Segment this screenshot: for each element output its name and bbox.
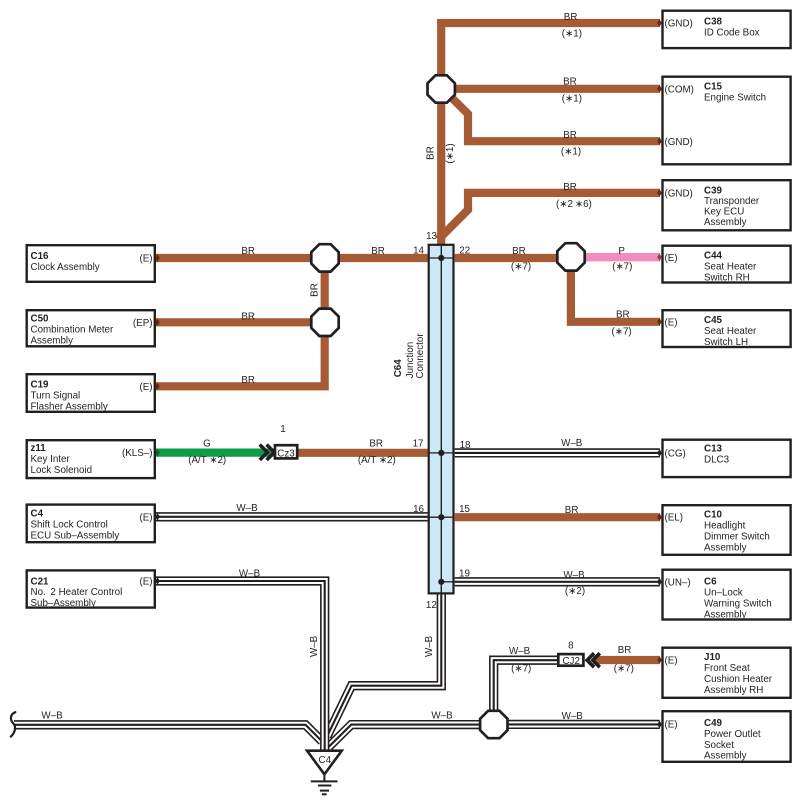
svg-text:z11: z11 (31, 443, 47, 454)
svg-text:(E): (E) (665, 656, 678, 667)
svg-text:(E): (E) (665, 720, 678, 731)
svg-text:Switch RH: Switch RH (704, 272, 750, 283)
component C39 Transponder Key ECU Assembly (663, 180, 791, 230)
svg-text:C15: C15 (704, 81, 723, 92)
svg-text:BR: BR (369, 439, 383, 450)
svg-text:Headlight: Headlight (704, 520, 746, 531)
svg-text:Assembly: Assembly (704, 751, 747, 762)
svg-text:C50: C50 (31, 314, 50, 325)
svg-text:(GND): (GND) (665, 137, 693, 148)
svg-text:W–B: W–B (562, 711, 584, 722)
svg-text:BR: BR (241, 246, 255, 257)
svg-text:G: G (203, 439, 211, 450)
svg-text:Socket: Socket (704, 740, 734, 751)
component z11 Key Inter Lock Solenoid (27, 440, 155, 478)
svg-text:BR: BR (616, 310, 630, 321)
svg-text:W–B: W–B (431, 711, 453, 722)
svg-text:Turn Signal: Turn Signal (31, 390, 81, 401)
svg-text:14: 14 (413, 246, 424, 257)
svg-text:C45: C45 (704, 315, 723, 326)
wire BR from C16 to octagon junction B (156, 254, 325, 262)
svg-text:Engine Switch: Engine Switch (704, 92, 766, 103)
svg-text:C49: C49 (704, 718, 723, 729)
svg-text:13: 13 (426, 231, 437, 242)
svg-text:(E): (E) (139, 512, 152, 523)
svg-text:(E): (E) (139, 382, 152, 393)
svg-text:W–B: W–B (41, 711, 63, 722)
svg-text:(∗7): (∗7) (612, 327, 632, 338)
svg-text:(E): (E) (139, 577, 152, 588)
svg-text:C4: C4 (319, 755, 332, 766)
svg-text:(UN–): (UN–) (665, 577, 691, 588)
svg-text:18: 18 (460, 440, 471, 451)
connector Cz3 (260, 445, 298, 460)
junction octagon E (bottom W-B splice) (480, 711, 507, 738)
component C6 Un-Lock Warning Switch Assembly (663, 570, 791, 621)
ground C4 (307, 751, 342, 795)
wire BR vertical between octagon junctions B and C (321, 258, 329, 323)
wire BR from octagon junction B to C64 pin 14 (325, 254, 428, 262)
svg-text:BR: BR (563, 182, 577, 193)
svg-text:BR: BR (563, 76, 577, 87)
svg-text:17: 17 (413, 438, 424, 449)
svg-text:Cz3: Cz3 (277, 448, 295, 459)
svg-text:(GND): (GND) (665, 19, 693, 30)
svg-text:W–B: W–B (239, 568, 261, 579)
svg-text:Power Outlet: Power Outlet (704, 729, 761, 740)
wire continuation break symbol (left bus) (11, 712, 16, 736)
component C13 DLC3 (663, 440, 791, 477)
svg-text:19: 19 (459, 569, 470, 580)
svg-text:C10: C10 (704, 509, 723, 520)
wire W-B from C4 to C64 pin 16 (155, 503, 428, 521)
wire BR from connector Cz3 to C64 pin 17 (298, 449, 428, 457)
svg-text:12: 12 (426, 600, 437, 611)
wire W-B from C64 pin 19 to C6 (455, 570, 662, 597)
svg-text:(A/T ∗2): (A/T ∗2) (358, 455, 396, 466)
svg-text:C64: C64 (393, 359, 404, 378)
svg-text:BR: BR (564, 12, 578, 23)
svg-text:J10: J10 (704, 652, 721, 663)
junction connector C64 (393, 245, 453, 594)
svg-text:(∗7): (∗7) (614, 664, 634, 675)
svg-text:BR: BR (241, 375, 255, 386)
svg-text:Un–Lock: Un–Lock (704, 587, 743, 598)
svg-text:BR: BR (563, 130, 577, 141)
svg-text:(KLS–): (KLS–) (122, 448, 153, 459)
svg-text:ECU Sub–Assembly: ECU Sub–Assembly (31, 531, 120, 542)
node C64 pin 17/18 (438, 450, 444, 456)
connector CJ2 (558, 653, 600, 667)
svg-text:BR: BR (241, 312, 255, 323)
component C4 Shift Lock Control ECU Sub-Assembly (27, 505, 155, 543)
svg-text:Connector: Connector (415, 333, 426, 379)
component C38 ID Code Box (663, 11, 791, 48)
svg-text:(E): (E) (665, 253, 678, 264)
component C50 Combination Meter Assembly (27, 310, 155, 347)
svg-text:No. 2 Heater Control: No. 2 Heater Control (31, 587, 123, 598)
svg-text:C44: C44 (704, 250, 723, 261)
wire BR branch from main vertical to C39 (GND) (439, 193, 660, 239)
wire W-B from ground junction to octagon junction (bottom) (329, 711, 481, 747)
svg-text:16: 16 (413, 504, 424, 515)
svg-text:Shift Lock Control: Shift Lock Control (31, 520, 108, 531)
svg-text:Clock Assembly: Clock Assembly (31, 262, 100, 273)
junction octagon C (C50 row splice) (311, 309, 338, 336)
svg-text:Front Seat: Front Seat (704, 663, 750, 674)
junction octagon A (top BR splice) (428, 75, 455, 102)
wire BR from top junction to C15 (COM) (455, 85, 660, 93)
svg-text:C38: C38 (704, 16, 723, 27)
svg-text:(GND): (GND) (665, 189, 693, 200)
svg-text:Transponder: Transponder (704, 196, 760, 207)
svg-text:22: 22 (459, 246, 470, 257)
svg-text:Assembly: Assembly (704, 217, 747, 228)
svg-text:BR: BR (310, 283, 321, 297)
svg-text:(EP): (EP) (133, 318, 153, 329)
component C15 Engine Switch (663, 77, 791, 165)
svg-text:(EL): (EL) (665, 513, 684, 524)
component C44 Seat Heater Switch RH (663, 246, 791, 284)
wire BR from top junction to C38 (441, 23, 660, 75)
component C49 Power Outlet Socket Assembly (663, 711, 791, 762)
svg-text:Seat Heater: Seat Heater (704, 261, 757, 272)
wire BR branch from top junction to C15 (GND) (449, 95, 660, 142)
svg-text:BR: BR (371, 246, 385, 257)
svg-text:Assembly: Assembly (31, 336, 74, 347)
svg-text:W–B: W–B (509, 646, 531, 657)
svg-text:1: 1 (280, 424, 285, 435)
svg-text:BR: BR (618, 645, 632, 656)
svg-text:Seat Heater: Seat Heater (704, 326, 757, 337)
wire G from z11 to connector Cz3 (156, 449, 274, 457)
svg-text:Sub–Assembly: Sub–Assembly (31, 598, 96, 609)
svg-text:(∗7): (∗7) (612, 262, 632, 273)
svg-text:Warning Switch: Warning Switch (704, 598, 772, 609)
wire BR from C50 to octagon junction C (156, 318, 325, 326)
svg-text:(∗1): (∗1) (562, 28, 582, 39)
svg-text:BR: BR (426, 146, 437, 160)
svg-text:Flasher Assembly: Flasher Assembly (31, 401, 108, 412)
component C21 No.2 Heater Control Sub-Assembly (27, 570, 155, 609)
svg-text:Cushion Heater: Cushion Heater (704, 674, 773, 685)
svg-text:Assembly RH: Assembly RH (704, 685, 763, 696)
component C45 Seat Heater Switch LH (663, 310, 791, 348)
wire W-B from C64 pin 18 to C13 (455, 438, 662, 457)
node C64 pin 14/22 (438, 255, 444, 261)
svg-text:(E): (E) (139, 254, 152, 265)
svg-text:(∗7): (∗7) (511, 262, 531, 273)
wire P from octagon junction D to C44 (584, 253, 660, 261)
svg-text:P: P (618, 246, 625, 257)
svg-text:(∗1): (∗1) (562, 94, 582, 105)
svg-text:W–B: W–B (424, 635, 435, 657)
svg-text:(A/T ∗2): (A/T ∗2) (188, 455, 226, 466)
junction octagon B (C16 row splice) (311, 244, 338, 271)
svg-text:W–B: W–B (561, 438, 583, 449)
wire W-B from C64 pin 12 down to ground junction (327, 594, 441, 737)
svg-text:W–B: W–B (563, 570, 585, 581)
svg-text:W–B: W–B (236, 503, 258, 514)
junction octagon D (seat heater splice) (557, 243, 584, 270)
svg-text:(∗2 ∗6): (∗2 ∗6) (556, 199, 592, 210)
svg-text:C21: C21 (31, 576, 50, 587)
svg-text:15: 15 (459, 504, 470, 515)
svg-text:Key ECU: Key ECU (704, 206, 744, 217)
wire W-B from bottom octagon junction to C49 (507, 711, 662, 728)
component C16 Clock Assembly (27, 245, 155, 282)
svg-text:C6: C6 (704, 576, 717, 587)
svg-text:(∗2): (∗2) (565, 586, 585, 597)
svg-text:(∗1): (∗1) (445, 143, 456, 163)
svg-text:Key Inter: Key Inter (31, 454, 71, 465)
svg-text:Assembly: Assembly (704, 542, 747, 553)
svg-text:Switch LH: Switch LH (704, 337, 748, 348)
svg-text:Assembly: Assembly (704, 609, 747, 620)
svg-text:Dimmer Switch: Dimmer Switch (704, 531, 770, 542)
svg-text:C4: C4 (31, 509, 44, 520)
wire BR from connector CJ2 to J10 (593, 656, 660, 664)
svg-text:(COM): (COM) (665, 84, 694, 95)
svg-text:DLC3: DLC3 (704, 454, 730, 465)
node C64 pin 16/15 (438, 514, 444, 520)
svg-text:C16: C16 (31, 251, 50, 262)
svg-text:8: 8 (568, 641, 574, 652)
svg-text:(E): (E) (665, 317, 678, 328)
svg-text:BR: BR (512, 246, 526, 257)
wire BR from C64 pin 15 to C10 (455, 513, 660, 521)
component J10 Front Seat Cushion Heater Assembly RH (663, 648, 791, 698)
wire W-B left bus with continuation to ground junction (14, 711, 322, 742)
component C19 Turn Signal Flasher Assembly (27, 374, 155, 412)
svg-text:W–B: W–B (309, 635, 320, 657)
svg-text:Combination Meter: Combination Meter (31, 325, 115, 336)
component C10 Headlight Dimmer Switch Assembly (663, 505, 791, 555)
svg-text:Lock Solenoid: Lock Solenoid (31, 465, 93, 476)
svg-text:C19: C19 (31, 379, 50, 390)
wire BR main vertical from top junction to C64 pin 13 (437, 101, 445, 245)
wire BR from octagon junction D down to C45 (571, 266, 660, 322)
wire W-B from C21 to ground C4 (155, 568, 325, 750)
svg-text:BR: BR (565, 505, 579, 516)
svg-text:(∗1): (∗1) (561, 147, 581, 158)
wire W-B from CJ2 down to bottom octagon junction (494, 646, 558, 711)
svg-text:C39: C39 (704, 185, 723, 196)
svg-text:(CG): (CG) (665, 448, 686, 459)
svg-text:ID Code Box: ID Code Box (704, 27, 760, 38)
wire BR from C19 up to octagon junction C (156, 330, 325, 386)
svg-text:CJ2: CJ2 (562, 656, 579, 667)
svg-text:C13: C13 (704, 443, 723, 454)
svg-text:(∗7): (∗7) (511, 664, 531, 675)
node C64 pin 19 (438, 579, 444, 585)
wire BR from C64 pin 22 to octagon junction D (455, 254, 571, 262)
